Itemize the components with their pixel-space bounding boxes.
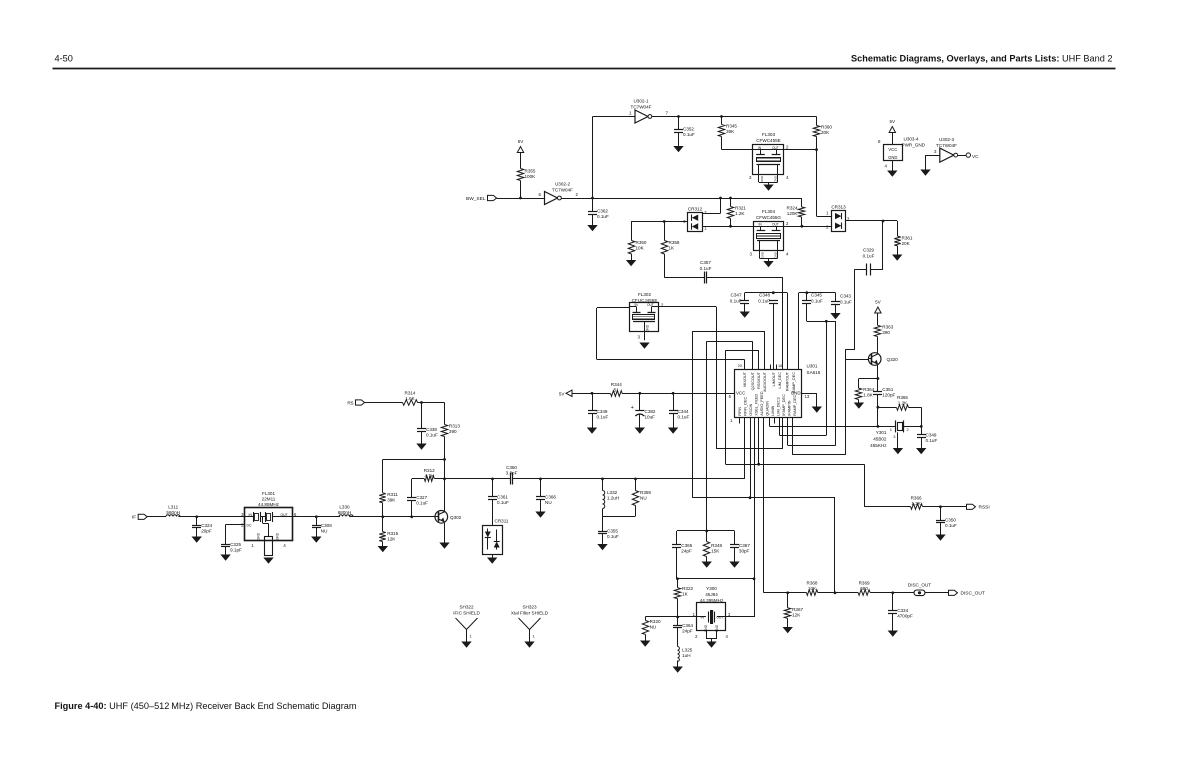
- ground for C362: [592, 214, 594, 225]
- resistor R322 1K: [677, 579, 679, 588]
- svg-text:9.1pF: 9.1pF: [230, 548, 242, 553]
- svg-text:10K: 10K: [636, 246, 645, 251]
- svg-text:U302-2: U302-2: [555, 182, 571, 187]
- svg-text:GND: GND: [773, 175, 777, 183]
- ground for C382: [639, 415, 641, 428]
- svg-text:IFIC SHIELD: IFIC SHIELD: [453, 611, 480, 616]
- resistor R311 39K: [382, 459, 384, 492]
- svg-text:30pF: 30pF: [739, 549, 750, 554]
- ground for C308: [316, 528, 318, 537]
- net VC output: [958, 155, 967, 157]
- capacitor C366 NU: [540, 479, 542, 497]
- svg-text:C382: C382: [645, 409, 656, 414]
- wire pin to audio R368 line: [763, 418, 765, 593]
- svg-text:AUDIOOUT: AUDIOOUT: [763, 371, 767, 392]
- wire RFIN pin down to quad line corner: [744, 418, 746, 479]
- wire C345 bottom staircase to IC pins: [806, 303, 808, 321]
- svg-text:1.8K: 1.8K: [863, 393, 873, 398]
- wire QUADIN to quad detector Y301: [769, 418, 771, 427]
- svg-text:0.1uF: 0.1uF: [700, 266, 712, 271]
- ground for R361: [897, 246, 899, 255]
- ground for CR311: [492, 554, 494, 558]
- svg-text:C308: C308: [321, 523, 332, 528]
- svg-text:0.1uF: 0.1uF: [811, 298, 823, 303]
- ground for C352: [678, 132, 680, 146]
- wire C357 to IC top pin: [707, 277, 783, 279]
- ground for FL303: [768, 182, 770, 184]
- wire OSCIN pin to lower bus: [750, 418, 752, 498]
- svg-text:C329: C329: [863, 248, 874, 253]
- resistor R355 100K: [520, 153, 522, 169]
- wire FL301 out: [292, 516, 340, 518]
- resistor R313 390: [444, 403, 446, 425]
- wire C329 to Q320 base: [855, 269, 867, 271]
- svg-text:680nH: 680nH: [338, 510, 352, 515]
- svg-text:C367: C367: [739, 543, 750, 548]
- svg-text:C349: C349: [597, 409, 608, 414]
- svg-text:C327: C327: [416, 495, 427, 500]
- wire FL304 output to CR313 pin2: [784, 226, 832, 228]
- svg-text:12K: 12K: [387, 537, 396, 542]
- svg-text:RSSIOUT: RSSIOUT: [757, 371, 761, 389]
- svg-text:C324: C324: [201, 523, 212, 528]
- wire FL302 IN from MIXOUT: [597, 307, 630, 309]
- svg-text:LIM_DEC2: LIM_DEC2: [777, 397, 781, 416]
- svg-text:IFAMPIN: IFAMPIN: [788, 400, 792, 415]
- svg-text:DISC_OUT: DISC_OUT: [908, 583, 931, 588]
- svg-text:GND: GND: [276, 532, 280, 540]
- svg-text:1.2uH: 1.2uH: [607, 496, 619, 501]
- svg-text:39K: 39K: [387, 498, 396, 503]
- wire Y300 output: [726, 616, 754, 618]
- transistor Q302: [435, 511, 448, 524]
- inductor L325 1uH: [677, 628, 679, 647]
- svg-text:OSCIN: OSCIN: [749, 403, 753, 415]
- wire U301 bottom pin stubs: [739, 418, 741, 424]
- svg-text:U302-3: U302-3: [939, 137, 955, 142]
- svg-text:0.1uF: 0.1uF: [678, 415, 690, 420]
- ground for L325: [677, 661, 679, 667]
- svg-text:RFIN_DEC: RFIN_DEC: [744, 396, 748, 415]
- svg-text:C364: C364: [682, 623, 693, 628]
- inductor L332 1.2uH: [602, 479, 604, 491]
- ground for U303-4: [892, 161, 894, 171]
- ground for R350: [631, 254, 633, 260]
- ground for FL302: [639, 343, 649, 349]
- capacitor C365 24pF: [676, 531, 678, 545]
- svg-text:C355: C355: [607, 529, 618, 534]
- svg-text:NU: NU: [321, 529, 328, 534]
- wire RSSIOUT pin joins RSSI line: [758, 418, 760, 464]
- svg-text:0.1uF: 0.1uF: [607, 534, 619, 539]
- svg-text:C366: C366: [545, 495, 556, 500]
- svg-text:R360: R360: [821, 125, 832, 130]
- svg-text:0.1uF: 0.1uF: [426, 433, 438, 438]
- svg-text:R321: R321: [735, 206, 746, 211]
- capacitor C352 0.1uF: [678, 117, 680, 130]
- svg-text:24pF: 24pF: [682, 629, 693, 634]
- svg-text:0.1uF: 0.1uF: [730, 298, 742, 303]
- svg-text:390: 390: [882, 330, 890, 335]
- svg-text:NU: NU: [640, 496, 647, 501]
- capacitor C345 0.1uF: [806, 293, 808, 301]
- wire R345 to FL303 input: [722, 149, 754, 151]
- svg-text:1uH: 1uH: [682, 653, 690, 658]
- svg-text:Figure 4-40: UHF (450–512 MHz): Figure 4-40: UHF (450–512 MHz) Receiver …: [55, 701, 357, 711]
- svg-text:C357: C357: [700, 260, 711, 265]
- svg-text:VCC: VCC: [736, 391, 745, 396]
- wire IFAMPIN pin loop to C329 vertical: [792, 418, 794, 455]
- svg-text:GND: GND: [646, 324, 650, 332]
- svg-text:FL302: FL302: [638, 292, 651, 297]
- svg-text:Q2SCOUT: Q2SCOUT: [751, 371, 755, 390]
- svg-text:CR312: CR312: [688, 207, 703, 212]
- ground for C349: [592, 414, 594, 428]
- svg-text:R344: R344: [611, 382, 622, 387]
- svg-text:C345: C345: [811, 293, 822, 298]
- svg-text:TC7W04F: TC7W04F: [631, 105, 652, 110]
- svg-text:NU: NU: [650, 625, 657, 630]
- svg-text:C352: C352: [683, 127, 694, 132]
- svg-text:R350: R350: [636, 240, 647, 245]
- svg-text:C349: C349: [926, 433, 937, 438]
- svg-text:R368: R368: [807, 581, 818, 586]
- ground for C334: [892, 613, 894, 630]
- svg-text:C351: C351: [882, 387, 893, 392]
- wire CR312 pin3 left to R350/R358: [631, 221, 687, 223]
- svg-text:CFWC455E: CFWC455E: [756, 138, 781, 143]
- input terminal BW_SEL: [488, 195, 497, 200]
- wire audio line y=592.3: [764, 592, 807, 594]
- svg-text:15K: 15K: [711, 549, 720, 554]
- svg-text:R369: R369: [859, 581, 870, 586]
- svg-text:U302-1: U302-1: [633, 99, 649, 104]
- svg-text:QUADIN: QUADIN: [766, 401, 770, 416]
- resistor R345 39K: [721, 117, 723, 125]
- svg-text:IFAMPOUT: IFAMPOUT: [786, 371, 790, 391]
- capacitor C367 30pF: [734, 531, 736, 545]
- svg-text:5V: 5V: [889, 119, 896, 124]
- svg-text:C343: C343: [840, 294, 851, 299]
- svg-text:24pF: 24pF: [681, 549, 692, 554]
- resistor R359 NU: [635, 479, 637, 491]
- wire Q320 base line: [846, 359, 869, 361]
- capacitor C349 0.1uF: [592, 393, 594, 411]
- ground for Q302: [439, 543, 449, 549]
- capacitor C364 24pF: [677, 617, 679, 625]
- svg-text:R358: R358: [669, 240, 680, 245]
- capacitor C327 0.1uF: [411, 479, 413, 498]
- capacitor C325 9.1pF: [221, 544, 230, 546]
- svg-text:AUDIO_FEED: AUDIO_FEED: [760, 391, 764, 416]
- ground for R348: [706, 557, 708, 562]
- svg-text:TC7W04F: TC7W04F: [936, 143, 957, 148]
- svg-text:C350: C350: [945, 518, 956, 523]
- svg-text:C334: C334: [897, 608, 908, 613]
- svg-text:455KHz: 455KHz: [870, 443, 887, 448]
- capacitor C350 0.1uF: [940, 507, 942, 520]
- svg-text:C347: C347: [731, 293, 742, 298]
- svg-text:IN: IN: [249, 513, 253, 517]
- svg-text:R5: R5: [347, 400, 353, 406]
- wire L332/R359 bottoms: [603, 516, 636, 518]
- svg-text:4700pF: 4700pF: [897, 614, 913, 619]
- resistor R321 1.2K: [730, 198, 732, 207]
- wire Q302 collector: [444, 453, 446, 511]
- svg-text:120K: 120K: [787, 211, 799, 216]
- svg-text:XSEL_FEED: XSEL_FEED: [755, 393, 759, 415]
- svg-text:R355: R355: [525, 169, 536, 174]
- capacitor C351 120pF: [877, 379, 879, 392]
- wire Y300 input line: [645, 616, 697, 618]
- svg-text:R313: R313: [449, 424, 460, 429]
- svg-text:LIM_DEC: LIM_DEC: [778, 372, 782, 389]
- ground for C338: [421, 432, 423, 444]
- wire BW_SEL to inverter U302-2: [497, 198, 545, 200]
- ground for Y301 pin3: [893, 448, 903, 454]
- svg-text:5V: 5V: [559, 392, 566, 397]
- wire FL303 output to R360 junction and down to CR313: [784, 149, 817, 151]
- resistor R361 20K: [897, 221, 899, 236]
- svg-text:0.1uF: 0.1uF: [926, 438, 938, 443]
- svg-text:RAMP_DEC: RAMP_DEC: [793, 394, 797, 415]
- svg-text:FL301: FL301: [262, 491, 275, 496]
- ground for C350: [940, 523, 942, 535]
- svg-text:1K: 1K: [682, 592, 689, 597]
- resistor R344 51: [572, 393, 611, 395]
- capacitor C344 0.1uF: [673, 393, 675, 411]
- svg-text:100K: 100K: [525, 174, 537, 179]
- svg-text:0.1uF: 0.1uF: [597, 415, 609, 420]
- wire bracket rail 2: [677, 578, 754, 580]
- ground for C343: [835, 304, 837, 313]
- output terminal RSSI: [967, 504, 976, 509]
- svg-text:Schematic Diagrams, Overlays,: Schematic Diagrams, Overlays, and Parts …: [851, 54, 1112, 64]
- svg-text:12K: 12K: [792, 613, 801, 618]
- svg-text:VCC: VCC: [888, 147, 897, 152]
- svg-text:C344: C344: [678, 409, 689, 414]
- svg-text:45B02: 45B02: [873, 437, 887, 442]
- svg-text:GND: GND: [760, 251, 764, 259]
- resistor R324 120K: [801, 198, 803, 207]
- svg-text:SA616: SA616: [807, 370, 821, 375]
- svg-text:VC: VC: [972, 154, 979, 159]
- ground for C347: [744, 303, 746, 311]
- resistor R363 390: [877, 313, 879, 325]
- capacitor C343 0.1uF: [835, 293, 837, 302]
- wire bracket rail C365/R348/C367: [677, 530, 735, 532]
- svg-text:LIMIN: LIMIN: [771, 405, 775, 415]
- wire feedback up to U302-1 input: [592, 117, 594, 199]
- svg-text:20K: 20K: [821, 130, 830, 135]
- wire L330 to Q302 base: [349, 516, 438, 518]
- svg-text:OUT: OUT: [772, 223, 779, 227]
- ground for C325: [225, 547, 227, 555]
- input terminal IF: [138, 514, 147, 519]
- svg-text:0.1uF: 0.1uF: [863, 254, 875, 259]
- svg-text:R324: R324: [787, 206, 798, 211]
- svg-text:3.3pF: 3.3pF: [506, 470, 518, 475]
- transistor Q320: [868, 353, 881, 366]
- svg-text:10uF: 10uF: [645, 415, 656, 420]
- svg-text:GND: GND: [760, 175, 764, 183]
- svg-text:Q302: Q302: [450, 515, 462, 520]
- ground for C344: [673, 414, 675, 428]
- svg-text:RFIN: RFIN: [738, 407, 742, 416]
- capacitor C324 20pF: [196, 517, 198, 525]
- svg-text:U301: U301: [807, 364, 818, 369]
- svg-text:R359: R359: [640, 490, 651, 495]
- svg-text:0.1uF: 0.1uF: [597, 214, 609, 219]
- svg-text:1.2K: 1.2K: [735, 211, 745, 216]
- svg-text:5V: 5V: [518, 139, 525, 144]
- wire lower bus horizontal: [693, 497, 836, 499]
- svg-text:0.1uF: 0.1uF: [497, 500, 509, 505]
- output terminal DISC_OUT: [949, 590, 958, 595]
- wire caps rail 1: [745, 292, 788, 294]
- svg-text:0.1uF: 0.1uF: [683, 132, 695, 137]
- resistor R320 NU: [645, 617, 647, 621]
- svg-text:+: +: [631, 405, 634, 411]
- wire U301 top pin stubs: [770, 365, 772, 370]
- svg-text:390: 390: [449, 429, 457, 434]
- svg-text:U303-4: U303-4: [904, 137, 920, 142]
- svg-text:GND: GND: [888, 155, 897, 160]
- svg-text:20K: 20K: [902, 241, 911, 246]
- svg-text:GND: GND: [773, 251, 777, 259]
- svg-text:C362: C362: [597, 209, 608, 214]
- svg-text:R363: R363: [882, 325, 893, 330]
- wire XSEL_FEED loop: [782, 418, 784, 449]
- svg-text:L332: L332: [607, 490, 618, 495]
- ground for C349 quad: [921, 437, 923, 448]
- svg-text:OUT: OUT: [772, 146, 779, 150]
- wire Q320 emitter: [877, 365, 879, 379]
- ground for FL304: [768, 259, 770, 261]
- wire RSSI line: [726, 464, 864, 466]
- svg-text:5V: 5V: [875, 300, 882, 305]
- svg-text:0.1uF: 0.1uF: [840, 299, 852, 304]
- svg-text:IF: IF: [132, 515, 136, 521]
- svg-text:L325: L325: [682, 648, 693, 653]
- capacitor C349 quad 0.1uF: [920, 425, 923, 428]
- svg-text:Y301: Y301: [876, 430, 887, 435]
- svg-text:OUT: OUT: [647, 303, 654, 307]
- capacitor C334 4700pF: [892, 593, 894, 611]
- wire CR313 pin3 to R361: [845, 220, 897, 222]
- svg-text:22M11: 22M11: [262, 497, 276, 502]
- wire VCC rail to U301 pin 6: [622, 393, 734, 395]
- svg-text:GND: GND: [257, 532, 261, 540]
- wire CR312 pin1 to FL304 input: [703, 226, 754, 228]
- svg-text:CR313: CR313: [831, 205, 846, 210]
- svg-text:DC: DC: [247, 524, 252, 528]
- svg-text:DISC_OUT: DISC_OUT: [961, 591, 985, 597]
- header rule: [53, 68, 1116, 70]
- ground for R364: [858, 400, 860, 403]
- wire FL301 DC pin to C325: [226, 524, 245, 526]
- svg-text:45J84: 45J84: [705, 592, 718, 597]
- wire U302-1 output top line y=116: [652, 116, 817, 118]
- svg-text:C325: C325: [230, 542, 241, 547]
- svg-text:OUT: OUT: [281, 513, 288, 517]
- svg-text:20: 20: [738, 364, 742, 368]
- svg-text:SH323: SH323: [522, 605, 536, 610]
- svg-text:FL304: FL304: [762, 209, 775, 214]
- svg-text:CFWC455G: CFWC455G: [756, 215, 781, 220]
- svg-text:R365: R365: [897, 395, 908, 400]
- svg-text:R314: R314: [405, 391, 416, 396]
- svg-text:Y300: Y300: [706, 586, 717, 591]
- svg-text:C365: C365: [681, 543, 692, 548]
- svg-text:R312: R312: [424, 468, 435, 473]
- svg-text:IFAMP_DEC: IFAMP_DEC: [782, 394, 786, 416]
- svg-text:CR311: CR311: [495, 519, 509, 524]
- wire pin to Y300 OUT: [754, 418, 756, 617]
- svg-text:R366: R366: [911, 496, 922, 501]
- capacitor C348 0.1uF: [769, 300, 778, 302]
- svg-text:PWR_GND: PWR_GND: [902, 143, 926, 148]
- resistor R364 1.8K: [859, 378, 878, 380]
- wire Q302 emitter to ground: [444, 523, 446, 543]
- resistor R358 1K: [664, 222, 666, 241]
- resistor R367 12K: [787, 593, 789, 608]
- wire CR312 pin2 up to line: [703, 213, 721, 215]
- wire IF to FL301: [147, 516, 166, 518]
- capacitor C355 0.1uF: [602, 516, 604, 531]
- svg-text:R320: R320: [650, 619, 661, 624]
- capacitor C308 NU: [316, 517, 318, 525]
- svg-text:L311: L311: [168, 505, 178, 510]
- svg-text:RAMP_DEC: RAMP_DEC: [792, 372, 796, 393]
- svg-text:4-50: 4-50: [55, 54, 73, 64]
- svg-text:C348: C348: [759, 293, 770, 298]
- svg-text:R348: R348: [711, 543, 722, 548]
- svg-text:FL303: FL303: [762, 132, 775, 137]
- svg-text:C338: C338: [426, 427, 437, 432]
- capacitor C361 0.1uF: [492, 479, 494, 497]
- capacitor C382 10uF electrolytic: [639, 393, 641, 410]
- svg-text:R361: R361: [902, 236, 913, 241]
- resistor R360 20K: [816, 117, 818, 126]
- svg-text:R311: R311: [387, 492, 398, 497]
- wire U302-2 output line y=197.5: [561, 198, 802, 200]
- wire R311 top to collector node: [383, 459, 445, 461]
- wire caps rail 2: [799, 292, 836, 294]
- svg-text:Xtal Filter SHIELD: Xtal Filter SHIELD: [511, 611, 549, 616]
- svg-text:BW_SEL: BW_SEL: [466, 196, 486, 202]
- ground for FL301: [263, 558, 273, 564]
- svg-text:1K: 1K: [669, 246, 676, 251]
- ground for Y300: [711, 639, 713, 642]
- svg-text:L330: L330: [339, 505, 350, 510]
- capacitor C338 0.1uF: [421, 403, 423, 430]
- svg-text:0.1uF: 0.1uF: [758, 298, 770, 303]
- svg-text:44.85MHz: 44.85MHz: [258, 502, 280, 507]
- svg-text:16: 16: [778, 364, 782, 368]
- ground for C324: [196, 528, 198, 537]
- ground for R315: [382, 542, 384, 547]
- ground for R367: [787, 618, 789, 627]
- svg-text:R315: R315: [387, 531, 398, 536]
- wire left bus loops: [692, 331, 694, 498]
- svg-text:0.1uF: 0.1uF: [416, 501, 428, 506]
- resistor R348 15K: [706, 531, 708, 542]
- ground for U302-3 input: [925, 155, 927, 169]
- svg-text:C361: C361: [497, 495, 508, 500]
- ground for C355: [602, 534, 604, 544]
- svg-text:20pF: 20pF: [201, 529, 212, 534]
